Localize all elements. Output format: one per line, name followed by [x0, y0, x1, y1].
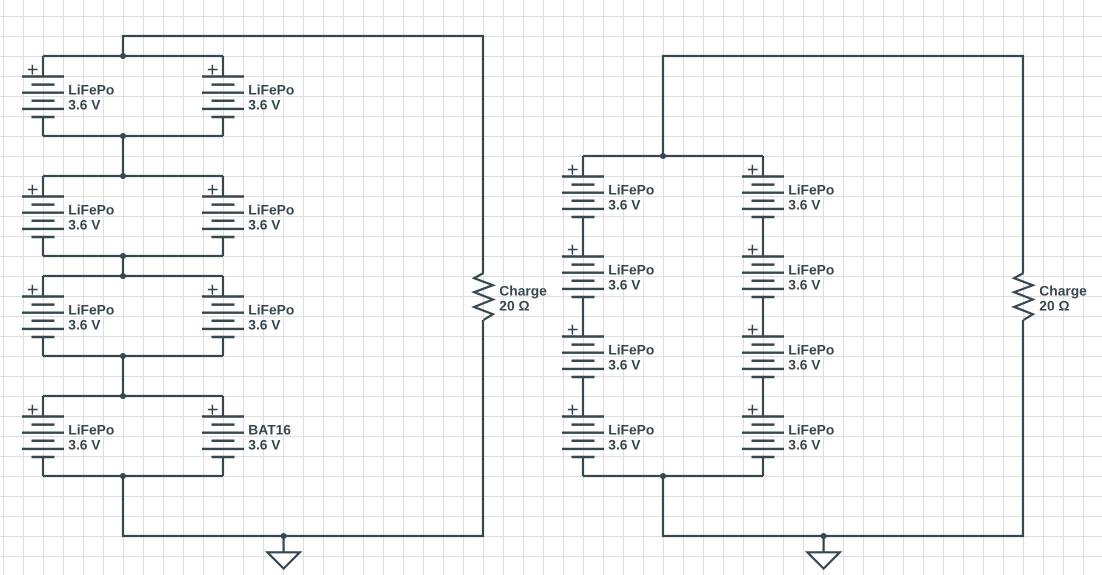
svg-text:LiFePo: LiFePo: [68, 423, 114, 438]
battery LiFePo right pack string B cell 4: [742, 396, 784, 476]
svg-text:3.6 V: 3.6 V: [248, 218, 281, 233]
wire left pack positive feed: top bus: [123, 36, 483, 273]
svg-text:LiFePo: LiFePo: [788, 343, 834, 358]
label LiFePo 3.6 V: [788, 423, 834, 453]
battery LiFePo left pack row1 col A: [22, 56, 64, 136]
label LiFePo 3.6 V: [248, 203, 294, 233]
battery LiFePo left pack row4 col A: [22, 396, 64, 476]
svg-text:LiFePo: LiFePo: [608, 343, 654, 358]
svg-text:LiFePo: LiFePo: [68, 83, 114, 98]
wire left pack row2 top rail: [43, 175, 223, 177]
svg-text:3.6 V: 3.6 V: [608, 278, 641, 293]
wire left pack row1 top rail: [43, 55, 223, 57]
svg-text:Charge: Charge: [499, 283, 547, 298]
label Charge 20 ohm: [1039, 283, 1087, 313]
label LiFePo 3.6 V: [608, 343, 654, 373]
battery LiFePo right pack string A cell 1: [562, 156, 604, 236]
svg-text:LiFePo: LiFePo: [68, 303, 114, 318]
svg-text:3.6 V: 3.6 V: [68, 98, 101, 113]
battery LiFePo left pack row2 col A: [22, 176, 64, 256]
label LiFePo 3.6 V: [608, 263, 654, 293]
label BAT16 3.6 V: [248, 423, 291, 453]
svg-text:3.6 V: 3.6 V: [68, 318, 101, 333]
ground left: [267, 536, 299, 569]
svg-text:LiFePo: LiFePo: [608, 423, 654, 438]
battery BAT16 left pack row4 col B: [202, 396, 244, 476]
svg-text:BAT16: BAT16: [248, 423, 291, 438]
svg-text:3.6 V: 3.6 V: [608, 438, 641, 453]
svg-text:Charge: Charge: [1039, 283, 1087, 298]
svg-text:LiFePo: LiFePo: [248, 83, 294, 98]
svg-text:LiFePo: LiFePo: [788, 183, 834, 198]
wire left pack link row3-row4: [122, 356, 124, 396]
wire right pack bottom rail: [583, 475, 763, 477]
wire left pack row3 bottom rail: [43, 355, 223, 357]
svg-text:3.6 V: 3.6 V: [248, 438, 281, 453]
label LiFePo 3.6 V: [68, 83, 114, 113]
svg-text:LiFePo: LiFePo: [788, 263, 834, 278]
battery LiFePo right pack string B cell 1: [742, 156, 784, 236]
svg-text:3.6 V: 3.6 V: [68, 438, 101, 453]
label LiFePo 3.6 V: [68, 203, 114, 233]
svg-text:3.6 V: 3.6 V: [248, 318, 281, 333]
label LiFePo 3.6 V: [608, 183, 654, 213]
junction left row4 bottom: [120, 473, 126, 479]
battery LiFePo right pack string B cell 3: [742, 316, 784, 396]
svg-text:LiFePo: LiFePo: [608, 183, 654, 198]
label LiFePo 3.6 V: [68, 423, 114, 453]
svg-text:LiFePo: LiFePo: [248, 203, 294, 218]
svg-text:LiFePo: LiFePo: [608, 263, 654, 278]
svg-text:3.6 V: 3.6 V: [788, 358, 821, 373]
svg-text:LiFePo: LiFePo: [248, 303, 294, 318]
wire left pack link row2-row3: [122, 256, 124, 276]
label LiFePo 3.6 V: [68, 303, 114, 333]
wire left pack row1 bottom rail: [43, 135, 223, 137]
resistor Charge 20 Ohm (left): [474, 273, 493, 320]
wire left pack row3 top rail: [43, 275, 223, 277]
svg-text:3.6 V: 3.6 V: [788, 438, 821, 453]
svg-text:20 Ω: 20 Ω: [1039, 299, 1069, 314]
junction left row1 top: [120, 53, 126, 59]
wire left pack row4 bottom rail: [43, 475, 223, 477]
label LiFePo 3.6 V: [248, 83, 294, 113]
wire left pack negative return: bottom bus: [123, 320, 483, 536]
svg-text:3.6 V: 3.6 V: [608, 358, 641, 373]
label LiFePo 3.6 V: [788, 343, 834, 373]
label LiFePo 3.6 V: [788, 183, 834, 213]
battery LiFePo left pack row2 col B: [202, 176, 244, 256]
svg-text:3.6 V: 3.6 V: [68, 218, 101, 233]
junction left ground tap: [281, 533, 287, 539]
wire right pack top rail: [583, 155, 763, 157]
ground right: [807, 536, 839, 569]
battery LiFePo left pack row3 col B: [202, 276, 244, 356]
junction left row4 top: [120, 393, 126, 399]
wire right pack negative return: bottom bus: [663, 320, 1023, 536]
battery LiFePo right pack string A cell 4: [562, 396, 604, 476]
wire left pack row4 top rail: [43, 395, 223, 397]
junction left row1 bottom: [120, 133, 126, 139]
wire left pack row2 bottom rail: [43, 255, 223, 257]
junction right ground tap: [821, 533, 827, 539]
junction right bottom rail tap: [660, 473, 666, 479]
junction right top rail tap: [660, 153, 666, 159]
label Charge 20 ohm: [499, 283, 547, 313]
battery LiFePo right pack string A cell 2: [562, 236, 604, 316]
svg-text:20 Ω: 20 Ω: [499, 299, 529, 314]
resistor Charge 20 Ohm (right): [1014, 273, 1033, 320]
wire left pack link row1-row2: [122, 136, 124, 176]
battery LiFePo left pack row3 col A: [22, 276, 64, 356]
junction left row2 top: [120, 173, 126, 179]
label LiFePo 3.6 V: [788, 263, 834, 293]
label LiFePo 3.6 V: [608, 423, 654, 453]
battery LiFePo right pack string B cell 2: [742, 236, 784, 316]
junction left row3 top: [120, 273, 126, 279]
svg-text:LiFePo: LiFePo: [788, 423, 834, 438]
battery LiFePo right pack string A cell 3: [562, 316, 604, 396]
svg-text:3.6 V: 3.6 V: [788, 278, 821, 293]
wire right pack positive feed: top bus: [663, 56, 1023, 273]
svg-text:3.6 V: 3.6 V: [248, 98, 281, 113]
label LiFePo 3.6 V: [248, 303, 294, 333]
junction left row2 bottom: [120, 253, 126, 259]
svg-text:3.6 V: 3.6 V: [788, 198, 821, 213]
svg-text:LiFePo: LiFePo: [68, 203, 114, 218]
svg-text:3.6 V: 3.6 V: [608, 198, 641, 213]
battery LiFePo left pack row1 col B: [202, 56, 244, 136]
junction left row3 bottom: [120, 353, 126, 359]
